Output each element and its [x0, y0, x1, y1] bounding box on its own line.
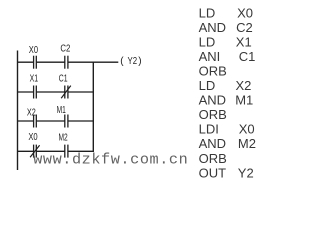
wire rung2 left segment [17, 91, 34, 93]
svg-text:M2: M2 [59, 133, 68, 144]
wire rung4 right segment [68, 150, 94, 152]
wire rung1 middle segment [36, 61, 65, 63]
svg-text:Y2: Y2 [238, 165, 254, 180]
svg-text:X2: X2 [236, 78, 252, 93]
svg-text:C2: C2 [60, 44, 70, 55]
svg-text:M2: M2 [238, 136, 256, 151]
wire rung3 middle segment [36, 120, 65, 122]
svg-text:M1: M1 [235, 93, 253, 108]
coil Y2 [120, 56, 141, 67]
svg-text:C1: C1 [239, 49, 256, 64]
svg-text:X1: X1 [30, 74, 39, 85]
svg-text:X0: X0 [239, 122, 255, 137]
wire rung4 left segment [17, 150, 34, 152]
wire rung2 right segment [68, 91, 94, 93]
instruction line 1: LD X0 [199, 5, 253, 20]
instruction line 8: ORB [199, 107, 227, 122]
svg-text:AND: AND [199, 20, 226, 35]
instruction line 3: LD X1 [199, 35, 252, 50]
contact C2 (NO) rung1 [65, 56, 68, 69]
svg-text:LD: LD [199, 78, 216, 93]
svg-text:(: ( [120, 56, 124, 67]
right bus wire [92, 62, 94, 153]
instruction line 2: AND C2 [199, 20, 253, 35]
svg-text:ANI: ANI [199, 49, 221, 64]
instruction line 9: LDI X0 [199, 122, 255, 137]
instruction line 4: ANI C1 [199, 49, 256, 64]
svg-text:LD: LD [199, 5, 216, 20]
instruction line 10: AND M2 [199, 136, 256, 151]
contact X0 (NO) rung1 [34, 56, 37, 69]
wire rung3 left segment [17, 120, 34, 122]
svg-text:M1: M1 [57, 105, 66, 116]
svg-text:X0: X0 [29, 45, 39, 56]
instruction line 11: ORB [199, 151, 227, 166]
svg-text:X0: X0 [28, 132, 38, 143]
svg-text:Y2: Y2 [128, 56, 138, 67]
instruction line 6: LD X2 [199, 78, 252, 93]
wire rung2 middle segment [36, 91, 65, 93]
svg-text:ORB: ORB [199, 64, 227, 79]
svg-text:AND: AND [199, 136, 226, 151]
wire rung3 right segment [68, 120, 94, 122]
instruction line 5: ORB [199, 64, 227, 79]
svg-text:ORB: ORB [199, 107, 227, 122]
svg-text:C2: C2 [236, 20, 253, 35]
svg-text:LDI: LDI [199, 122, 219, 137]
svg-text:): ) [138, 56, 141, 67]
svg-text:X1: X1 [236, 35, 252, 50]
contact X1 (NO) rung2 [34, 86, 37, 99]
contact M2 (NO) rung4 [65, 145, 68, 158]
svg-text:AND: AND [199, 93, 226, 108]
svg-text:X2: X2 [27, 107, 36, 118]
svg-text:www.dzkfw.com.cn: www.dzkfw.com.cn [33, 151, 188, 169]
contact X2 (NO) rung3 [34, 115, 37, 128]
svg-text:LD: LD [199, 35, 216, 50]
wire rung4 middle segment [36, 150, 65, 152]
contact M1 (NO) rung3 [65, 115, 68, 128]
left power rail [17, 51, 19, 171]
svg-text:OUT: OUT [199, 165, 227, 180]
wire rung1 right segment to coil [68, 61, 118, 63]
contact X0 (NC) rung4 [30, 145, 39, 158]
wire rung1 left segment [17, 61, 34, 63]
svg-text:ORB: ORB [199, 151, 227, 166]
instruction line 12: OUT Y2 [199, 165, 254, 180]
instruction line 7: AND M1 [199, 93, 254, 108]
contact C1 (NC) rung2 [61, 86, 71, 99]
svg-text:X0: X0 [237, 5, 253, 20]
svg-text:C1: C1 [59, 74, 68, 85]
